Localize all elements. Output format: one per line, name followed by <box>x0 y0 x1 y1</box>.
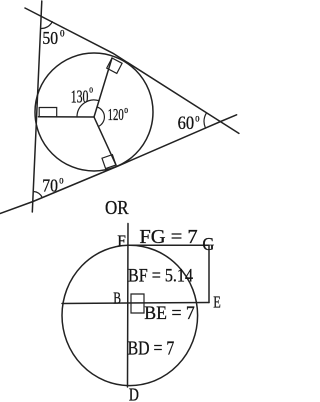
triangle left side line <box>32 1 42 212</box>
right-angle square at left tangent <box>39 108 57 117</box>
vertical diameter line F to D <box>127 224 130 388</box>
svg-text:0: 0 <box>60 29 65 39</box>
120 degree angle arc at center <box>97 107 104 127</box>
svg-text:D: D <box>129 385 139 402</box>
svg-text:0: 0 <box>195 113 199 123</box>
svg-text:0: 0 <box>124 106 128 115</box>
right-angle square at top tangent <box>107 58 122 73</box>
triangle top side line (tangent) <box>25 8 239 133</box>
svg-text:BD = 7: BD = 7 <box>128 339 175 360</box>
bottom circle <box>62 245 198 385</box>
horizontal line B to E <box>62 303 209 304</box>
130 degree angle arc at center <box>77 100 99 117</box>
radius to bottom tangent point <box>94 117 116 165</box>
radius to top tangent point <box>94 58 112 117</box>
svg-text:0: 0 <box>89 85 93 94</box>
svg-text:BE = 7: BE = 7 <box>144 303 195 324</box>
svg-text:BF = 5.14: BF = 5.14 <box>128 265 193 286</box>
svg-text:E: E <box>213 293 221 312</box>
svg-text:50: 50 <box>42 28 58 48</box>
svg-text:B: B <box>113 288 121 307</box>
svg-text:60: 60 <box>178 114 195 134</box>
60 degree angle arc <box>204 113 206 128</box>
right-angle square at B <box>131 294 144 313</box>
50 degree angle arc <box>41 22 53 29</box>
svg-text:FG = 7: FG = 7 <box>139 227 198 248</box>
svg-text:70: 70 <box>42 176 58 196</box>
svg-text:120: 120 <box>108 105 124 124</box>
svg-text:130: 130 <box>71 87 89 107</box>
right line G to E <box>208 245 210 302</box>
top line F to G <box>128 244 209 246</box>
right-angle square at bottom tangent <box>102 155 116 169</box>
svg-text:G: G <box>202 234 214 254</box>
triangle bottom side line (tangent) <box>0 115 237 214</box>
70 degree angle arc <box>34 192 43 198</box>
svg-text:0: 0 <box>59 175 63 185</box>
inscribed circle <box>35 53 153 171</box>
svg-text:OR: OR <box>105 198 129 219</box>
radius to left tangent point <box>39 116 95 118</box>
svg-text:F: F <box>117 233 126 250</box>
